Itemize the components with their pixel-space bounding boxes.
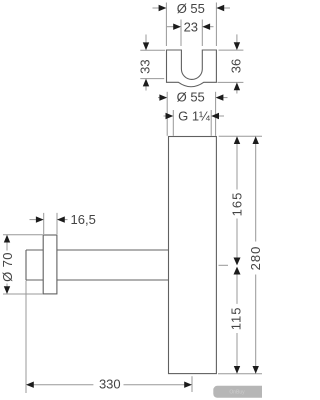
svg-text:280: 280 [248, 246, 262, 271]
dimension "33" (left height of bracket) [140, 35, 165, 91]
dimension "115" (pipe centre to body bottom) [236, 274, 238, 366]
svg-text:16,5: 16,5 [71, 212, 96, 227]
svg-text:23: 23 [184, 19, 198, 34]
svg-text:Ø 55: Ø 55 [177, 89, 205, 104]
dimension "Ø 55" (body width, above side view) [158, 92, 228, 136]
dimension "Ø 70" (flange diameter, left) [3, 235, 43, 294]
extension line (bottom, body bottom edge to right margin) [218, 373, 262, 375]
side view: vertical siphon body [169, 137, 217, 374]
watermark bar (bottom right) [213, 386, 262, 398]
svg-text:OnBuy: OnBuy [229, 390, 245, 396]
dimension "23" (U slot width) [167, 20, 214, 47]
svg-text:Ø 70: Ø 70 [0, 252, 15, 282]
svg-text:165: 165 [229, 192, 244, 217]
svg-text:33: 33 [138, 59, 153, 73]
dimension "165" (body top to pipe centre) [236, 144, 238, 258]
dimension "G 1¼" (thread size) [164, 110, 225, 136]
dimension "36" (right height of bracket) [218, 34, 244, 93]
svg-text:36: 36 [229, 59, 244, 73]
extension line (pipe centre level) [219, 264, 229, 266]
dimension "330" (wall to body centre, bottom) [26, 281, 192, 394]
side view: horizontal wall pipe [26, 250, 169, 280]
dimension "280" (body overall height) [255, 144, 257, 367]
extension line (top, body top edge to right margin) [219, 135, 262, 137]
svg-text:Ø 55: Ø 55 [177, 1, 205, 16]
svg-text:330: 330 [99, 377, 121, 392]
dimension "16,5" (flange depth) [30, 213, 68, 234]
dimension "Ø 55" (top view width, top) [153, 3, 231, 47]
top view: wall bracket outline with U-shaped slot and bottom arc cutout [167, 50, 217, 87]
svg-text:G 1¼: G 1¼ [178, 108, 210, 123]
side view: wall flange (rosette Ø70) [43, 235, 57, 294]
svg-text:115: 115 [229, 307, 244, 331]
